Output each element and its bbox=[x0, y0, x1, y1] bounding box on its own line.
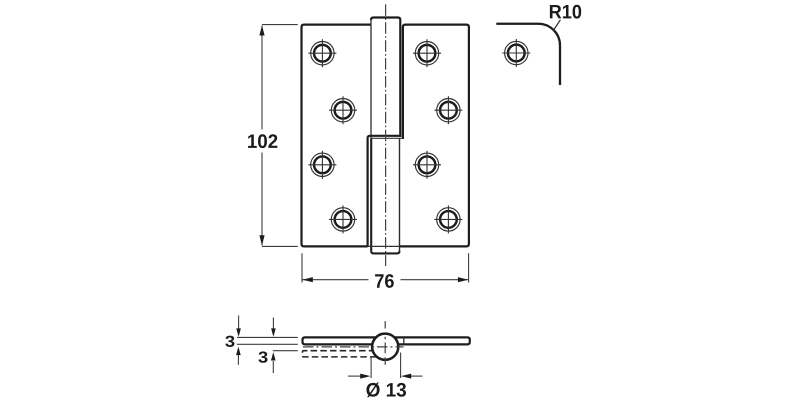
hole R2 bbox=[434, 96, 462, 124]
knuckle circle bbox=[372, 334, 398, 360]
diameter 13 left extension line bbox=[370, 358, 372, 379]
dimension 76 line left segment bbox=[303, 279, 369, 281]
knuckle upper piece top and right edge bbox=[371, 18, 400, 138]
hole R4 bbox=[434, 205, 462, 233]
dimension 102 top arrowhead bbox=[259, 25, 264, 35]
dimension 76 left extension line bbox=[301, 253, 303, 282]
diameter 13 left arrowhead bbox=[360, 374, 370, 379]
dimension 3 upper up arrow shaft bbox=[237, 354, 239, 365]
front view vertical center line bbox=[385, 4, 387, 266]
dimension 3 upper up arrowhead bbox=[236, 347, 241, 356]
diameter 13 left arrow shaft bbox=[348, 375, 361, 377]
dimension text 76 bbox=[375, 274, 394, 288]
dimension 3 upper down arrow shaft bbox=[238, 316, 240, 331]
hole L4 bbox=[329, 205, 357, 233]
dimension 3 lower up arrowhead bbox=[271, 352, 276, 361]
label R10 bbox=[550, 5, 581, 19]
dimension 76 left arrowhead bbox=[303, 277, 313, 282]
dimension text 3 lower bbox=[258, 351, 267, 362]
knuckle lower piece inner outline bbox=[371, 138, 399, 253]
dimension 102 line upper segment bbox=[261, 26, 263, 130]
leaf bottom edge line across knuckle bbox=[368, 245, 400, 247]
dimension 102 bottom extension line bbox=[262, 245, 298, 247]
dimension 76 line right segment bbox=[401, 279, 469, 281]
dimension 3 lower down arrow shaft bbox=[272, 318, 274, 330]
diameter 13 right extension line bbox=[400, 353, 402, 379]
corner detail outline with R10 radius bbox=[496, 24, 560, 85]
dimension 3 upper extension line top bbox=[237, 336, 298, 338]
dimension 102 line lower segment bbox=[261, 153, 263, 246]
bottom view vertical center line bbox=[384, 321, 386, 365]
knuckle upper piece left edge bbox=[370, 19, 372, 139]
R10 leader line bbox=[553, 20, 560, 31]
knuckle lower piece top and left edge bbox=[368, 136, 400, 247]
hole L1 bbox=[308, 39, 336, 67]
bottom view hidden lower leaf (dashed) bbox=[303, 351, 386, 357]
knuckle upper piece bottom edge bbox=[371, 137, 403, 139]
knuckle lower piece right edge bbox=[399, 138, 401, 251]
dimension 3 lower up arrow shaft bbox=[272, 361, 274, 373]
dimension text 102 bbox=[248, 134, 277, 148]
hole R3 bbox=[413, 151, 441, 179]
hole L2 bbox=[329, 96, 357, 124]
dimension 3 lower down arrowhead bbox=[271, 328, 276, 337]
diameter 13 right arrowhead bbox=[401, 374, 411, 379]
dimension 102 bottom arrowhead bbox=[259, 235, 264, 245]
corner detail screw hole bbox=[502, 39, 530, 67]
hole L3 bbox=[308, 151, 336, 179]
right leaf outline bbox=[400, 25, 469, 247]
bottom view upper leaf (edge view) bbox=[303, 337, 470, 344]
dimension 76 right extension line bbox=[468, 253, 470, 282]
right leaf end cap line bbox=[403, 338, 405, 345]
bottom view horizontal center line bbox=[303, 346, 404, 348]
dimension 102 top extension line bbox=[262, 24, 298, 26]
dimension 3 upper extension line bottom bbox=[237, 343, 298, 345]
diameter 13 right arrow shaft bbox=[411, 375, 423, 377]
dimension 76 right arrowhead bbox=[458, 277, 468, 282]
dimension text diameter 13 bbox=[366, 382, 406, 397]
dimension 3 upper down arrowhead bbox=[236, 328, 241, 337]
dimension text 3 upper bbox=[225, 336, 234, 347]
hole R1 bbox=[413, 39, 441, 67]
dimension 3 lower extension line bbox=[273, 350, 298, 352]
left leaf outline bbox=[302, 25, 372, 247]
